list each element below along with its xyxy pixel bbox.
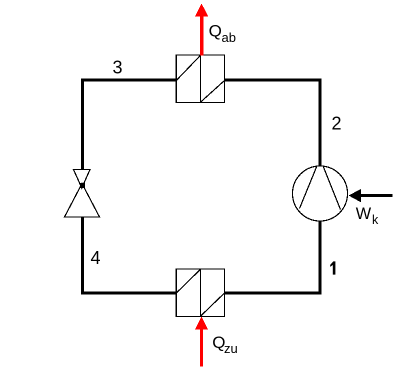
- label Wk: [356, 205, 379, 227]
- wire bottom-right segment (node 1 side): [224, 221, 320, 294]
- heat exchanger (condenser) top: [176, 55, 224, 102]
- compressor K: [293, 166, 348, 221]
- wire bottom-left segment (node 4 side): [83, 217, 177, 293]
- heat input arrow Qzu (red): [195, 317, 208, 367]
- expansion valve dot: [80, 183, 85, 188]
- label Qzu: [212, 333, 238, 356]
- wire top-left segment (node 3 side): [83, 80, 177, 170]
- node 1: [330, 261, 335, 274]
- wire top-right segment (node 2 side): [224, 80, 320, 167]
- expansion valve: [65, 170, 100, 218]
- svg-text:Q: Q: [209, 22, 222, 41]
- label Qab: [209, 22, 236, 45]
- svg-text:zu: zu: [224, 341, 238, 356]
- svg-text:4: 4: [91, 248, 101, 268]
- svg-text:k: k: [372, 213, 379, 227]
- svg-text:W: W: [356, 205, 372, 223]
- svg-text:3: 3: [113, 58, 123, 78]
- svg-text:2: 2: [332, 114, 342, 134]
- heat exchanger (evaporator) bottom: [176, 269, 224, 316]
- svg-text:ab: ab: [222, 30, 236, 45]
- heat output arrow Qab (red): [195, 4, 208, 56]
- work input arrow Wk: [349, 189, 393, 202]
